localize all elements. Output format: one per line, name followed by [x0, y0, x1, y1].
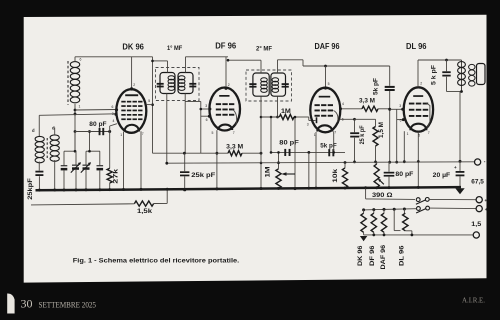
wire B plus rail [167, 162, 475, 163]
svg-text:3,3 M: 3,3 M [359, 98, 375, 105]
svg-text:1,5 M: 1,5 M [378, 122, 385, 138]
wire 1M right [294, 116, 309, 118]
wire IF1 secondary bottom [184, 94, 186, 154]
ground arrow filament [360, 236, 367, 241]
IF2 primary coil [261, 78, 268, 82]
switch S2 [417, 207, 421, 211]
wire plate to coupling node [378, 108, 390, 110]
wire IF1 secondary top link [185, 57, 187, 73]
wire osc La bottom to capacitor [38, 162, 40, 171]
svg-text:7: 7 [428, 131, 430, 135]
svg-text:1,5k: 1,5k [137, 208, 153, 215]
wire DF96 pin3 stub [201, 108, 210, 110]
arrow volume wiper [286, 173, 295, 175]
svg-text:DF 96: DF 96 [215, 42, 237, 51]
wire coupling to grid node [389, 91, 391, 162]
svg-text:+: + [485, 198, 488, 203]
wire DK96 filament to bus [140, 131, 142, 190]
svg-text:1: 1 [120, 133, 122, 137]
wire DL96 pin6 vertical [396, 109, 398, 162]
wire DF96 pin6 stub [201, 115, 209, 117]
wire IF2 primary bottom [260, 96, 262, 189]
svg-text:DAF 96: DAF 96 [380, 244, 387, 269]
tube DF96 filament [218, 125, 232, 130]
wire IF2 secondary top staircase [277, 60, 279, 73]
wire volume feed [270, 117, 272, 152]
wire filament return [364, 234, 474, 236]
IF1 secondary frame [178, 73, 193, 94]
tube DF96 internal lead [233, 110, 237, 126]
wire DAF96 pin6 stub [340, 118, 355, 120]
output transformer primary [461, 60, 463, 92]
wire 1.5k right [154, 202, 168, 204]
IF transformer 1 box [156, 68, 200, 101]
wire 27k top [109, 132, 111, 169]
capacitor 25kpF decoupling [354, 119, 356, 132]
IF2 primary cap [249, 83, 256, 85]
potentiometer regen [376, 162, 378, 164]
svg-text:5: 5 [328, 82, 330, 86]
svg-text:6: 6 [400, 118, 402, 122]
wire 390 ohm run [366, 198, 415, 201]
terminal filament minus [473, 232, 479, 238]
IF1 secondary coil [178, 76, 185, 80]
svg-text:4: 4 [342, 102, 344, 106]
svg-text:1M: 1M [264, 166, 271, 177]
svg-text:2: 2 [420, 81, 422, 85]
svg-text:80 pF: 80 pF [279, 139, 299, 146]
svg-text:DL 96: DL 96 [399, 245, 406, 266]
capacitor variable CV1 [75, 151, 77, 164]
svg-text:DL 96: DL 96 [406, 42, 427, 51]
arrow B minus [455, 188, 464, 194]
wire IF2 primary top link [260, 60, 262, 73]
capacitor 20uF [459, 161, 461, 171]
wire bias link [355, 118, 376, 120]
wire osc Lb bottom to bus [54, 160, 56, 190]
resistor filament DK96 [363, 210, 365, 213]
terminal filament plus [476, 197, 482, 203]
ground bus [36, 187, 462, 190]
tube DL96 envelope [404, 87, 433, 131]
speaker [477, 64, 486, 85]
svg-text:7: 7 [233, 131, 235, 135]
resistor filament DF96 [373, 210, 375, 214]
svg-text:d: d [32, 128, 35, 133]
capacitor 80pF bypass [388, 162, 390, 172]
capacitor 25kpF left [35, 171, 43, 173]
wire transformer bottom [447, 91, 462, 93]
antenna coil core [67, 61, 69, 105]
tube DAF96 anode bar [319, 96, 331, 98]
svg-text:2: 2 [133, 83, 135, 87]
trimmer bar 2 [86, 150, 100, 152]
tube DK96 envelope [116, 89, 146, 133]
svg-text:+: + [485, 207, 488, 212]
wire DAF96 pin7 to AF line [333, 132, 335, 153]
svg-text:DK 96: DK 96 [122, 42, 144, 51]
resistor 1.5k [134, 201, 153, 206]
svg-text:20 µF: 20 µF [433, 172, 451, 179]
svg-text:+: + [454, 165, 457, 170]
wire grid line 2 [39, 114, 116, 116]
capacitor trimmer C1 fixed [61, 165, 68, 166]
svg-text:DF 96: DF 96 [369, 245, 376, 266]
resistor 1.5M [373, 127, 378, 147]
svg-text:5k pF: 5k pF [320, 143, 336, 150]
wire DF96 box exit [185, 101, 201, 103]
svg-text:5 k pF: 5 k pF [430, 65, 437, 85]
tube DL96 anode bar [413, 95, 423, 97]
capacitor 5kpF tone [446, 60, 448, 71]
tube DF96 envelope [209, 88, 240, 131]
wire AVC to node [242, 152, 261, 154]
wire antenna coil bottom [74, 104, 76, 151]
svg-text:A.I.R.E.: A.I.R.E. [462, 296, 485, 305]
svg-text:1° MF: 1° MF [167, 44, 182, 52]
resistor 10k [344, 162, 346, 168]
wire primary to B plus [459, 92, 461, 162]
wire trimmer feed 2 [89, 132, 91, 152]
capacitor variable CV2 [85, 151, 87, 164]
IF2 secondary frame [271, 73, 286, 96]
wire IF1 primary bottom [166, 94, 168, 164]
capacitor 25kpF IF [184, 153, 186, 171]
oscillator coil La [35, 136, 44, 141]
wire volume wiper drop [294, 117, 296, 189]
wire IF2 secondary bottom [277, 96, 279, 117]
svg-text:67,5: 67,5 [471, 179, 484, 186]
wire DK96 cathode to bus [123, 132, 125, 190]
wire DL96 pin1 down [403, 131, 405, 162]
svg-text:10k: 10k [332, 168, 339, 182]
oscillator coil core [46, 138, 48, 159]
wire leg C fixed 1 [63, 151, 65, 165]
wire 1.5M to rail [375, 146, 377, 162]
arrow variable CV1 [71, 163, 81, 173]
svg-text:3,3 M: 3,3 M [226, 143, 243, 150]
svg-text:25kpF: 25kpF [27, 178, 34, 200]
svg-text:Fig. 1 - Schema elettrico del: Fig. 1 - Schema elettrico del ricevitore… [73, 258, 240, 265]
resistor 3.3M plate [362, 106, 378, 111]
tube DK96 anode bar [125, 94, 138, 96]
wire 80pF line [75, 131, 110, 133]
svg-text:5: 5 [212, 131, 214, 135]
resistor filament DAF96 [383, 209, 385, 213]
IF2 secondary cap [282, 83, 289, 85]
capacitor 80pF AF [284, 149, 286, 156]
wire to pin 4 [109, 126, 111, 132]
svg-text:DAF 96: DAF 96 [315, 42, 340, 51]
wire DK96 plate drop [131, 57, 133, 88]
svg-text:3: 3 [399, 104, 401, 108]
wire AF line [271, 151, 345, 153]
potentiometer 1M volume [278, 152, 280, 168]
trimmer bar 1 [64, 150, 77, 152]
wire left branch x=39.25 [38, 115, 40, 136]
resistor 1M diode load [279, 114, 294, 119]
IF1 primary coil [168, 76, 175, 80]
wire 1.5k left [31, 204, 134, 205]
wire grid node to DL96 [390, 108, 403, 110]
resistor filament DL96 [403, 209, 405, 213]
wire grid line 1 [75, 109, 117, 112]
wire DF96 top pin [225, 57, 227, 88]
wire DL96 plate up [417, 60, 419, 87]
capacitor 5kpF AF [328, 149, 330, 156]
svg-text:5k pF: 5k pF [373, 78, 380, 95]
svg-text:7: 7 [142, 132, 144, 136]
tube DF96 grid [216, 103, 221, 105]
svg-text:4: 4 [113, 119, 115, 123]
wire 1M left [261, 116, 279, 118]
wire vertical A x=152.5 [152, 57, 154, 153]
svg-text:DK 96: DK 96 [357, 245, 364, 266]
svg-text:6: 6 [112, 105, 114, 109]
capacitor 5kpF coupling [385, 86, 395, 88]
wire trimmer feed 1 [74, 132, 76, 152]
svg-text:30: 30 [21, 297, 33, 311]
tube DL96 grid [409, 103, 415, 105]
wire antenna top to rail [74, 57, 76, 62]
svg-text:1: 1 [314, 133, 316, 137]
arrow variable CV2 [81, 163, 91, 173]
wire DF96 grid feed vertical [200, 102, 202, 154]
tube DL96 internal lead [427, 103, 430, 127]
antenna coil L1 [70, 62, 79, 68]
IF1 secondary cap [189, 83, 196, 85]
wire filament feed line [363, 209, 417, 210]
capacitor trimmer C2 fixed [99, 151, 101, 165]
svg-text:SETTEMBRE 2025: SETTEMBRE 2025 [39, 300, 97, 309]
tube DK96 filament [125, 125, 140, 132]
capacitor 80pF grid [99, 128, 101, 135]
svg-text:25 k pF: 25 k pF [359, 125, 366, 144]
wire DAF96 cathode to bus [315, 132, 317, 189]
tube DAF96 envelope [310, 88, 340, 133]
svg-text:7: 7 [334, 130, 336, 134]
resistor 27k [107, 168, 112, 183]
tube DAF96 diode plate [316, 117, 318, 123]
wire osc Lb top stub [54, 128, 56, 136]
output transformer secondary [469, 64, 475, 69]
svg-text:3: 3 [307, 123, 309, 127]
wire IF1 primary top link [167, 61, 169, 73]
arrow regen wiper [379, 179, 384, 184]
IF2 primary frame [253, 73, 269, 96]
footer bookmark icon [7, 293, 14, 313]
svg-text:1,5: 1,5 [471, 221, 481, 228]
svg-text:80 pF: 80 pF [89, 121, 106, 128]
resistor 3.3M grid [228, 151, 242, 156]
wire S1 to terminal [429, 198, 476, 200]
terminal filament mid [476, 206, 482, 212]
top rail wire y=56.8 [75, 56, 153, 58]
svg-text:2: 2 [228, 83, 230, 87]
svg-text:3: 3 [112, 112, 114, 116]
svg-text:3: 3 [205, 104, 207, 108]
svg-text:1: 1 [407, 132, 409, 136]
svg-text:1: 1 [79, 105, 81, 109]
node 80pF right [108, 130, 111, 133]
IF1 primary frame [160, 73, 175, 94]
wire DL96 pin5 down [417, 132, 419, 188]
svg-text:2° MF: 2° MF [256, 44, 272, 52]
svg-text:5: 5 [148, 99, 150, 103]
wire filament jog [393, 209, 395, 230]
oscillator coil Lb [50, 135, 59, 140]
tube DAF96 internal lead [334, 111, 338, 123]
pin 5 stub DK96 [146, 104, 152, 106]
switch S1 [416, 198, 420, 202]
tube DAF96 grid [315, 104, 320, 106]
terminal B plus 67.5 [475, 159, 481, 165]
svg-text:27k: 27k [112, 168, 119, 183]
svg-text:390 Ω: 390 Ω [372, 192, 393, 199]
IF1 primary cap [157, 83, 164, 85]
wire 390 drop [365, 189, 367, 199]
svg-text:6: 6 [80, 58, 82, 62]
wire detector down [308, 152, 310, 188]
tube DK96 grid [121, 101, 125, 103]
svg-text:1M: 1M [281, 108, 291, 115]
wire AVC line y=153.2 [153, 152, 229, 154]
IF transformer 2 box [246, 70, 292, 101]
tube DL96 filament [410, 124, 426, 131]
wire coupling drop [389, 66, 391, 86]
IF2 secondary coil [272, 78, 279, 82]
wire DF96 cathode to bus [216, 130, 218, 190]
page background [24, 15, 487, 283]
svg-text:25k pF: 25k pF [191, 172, 215, 179]
tube DAF96 filament [317, 125, 332, 131]
wire S2 to terminal [430, 207, 477, 210]
tube DF96 anode bar [219, 95, 229, 97]
svg-text:80 pF: 80 pF [395, 171, 413, 178]
svg-text:6: 6 [206, 118, 208, 122]
wire DAF96 plate line [340, 108, 362, 110]
wire DAF96 top pin [325, 66, 327, 87]
wire DL96 pin6 stub [397, 119, 403, 121]
